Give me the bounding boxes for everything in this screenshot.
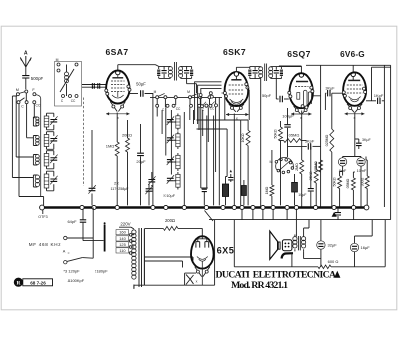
svg-text:6SQ7: 6SQ7 xyxy=(287,49,311,59)
wire OT drop xyxy=(242,209,309,237)
svg-text:6X5: 6X5 xyxy=(217,246,235,256)
svg-text:140: 140 xyxy=(119,236,126,241)
wire 6SQ7 plate to cap xyxy=(313,93,326,96)
resistor 0.5M AF xyxy=(280,140,284,142)
wire coil row 4 links xyxy=(47,171,54,191)
bus node x242 xyxy=(240,205,244,209)
svg-text:10mF: 10mF xyxy=(357,169,367,173)
antenna coil row 2 xyxy=(36,136,40,140)
capacitor 64pF xyxy=(80,220,86,222)
svg-text:☉10μF: ☉10μF xyxy=(163,194,176,198)
resistor 1M xyxy=(115,142,119,156)
svg-text:∆100KpF: ∆100KpF xyxy=(68,278,85,283)
wire heater taps xyxy=(144,257,193,268)
IF transformer T2 secondary coil xyxy=(269,67,273,71)
IF transformer T2 core xyxy=(265,64,267,82)
IF transformer T1 core xyxy=(175,62,177,81)
bus node x223 xyxy=(221,205,225,209)
phono contact 1 xyxy=(64,236,67,239)
capacitor 1KpF xyxy=(378,98,380,104)
wire right rails xyxy=(372,65,391,219)
transformer secondary winding xyxy=(143,229,145,286)
tube 6SQ7 top cap xyxy=(299,73,303,77)
bus node x353.6 xyxy=(352,205,356,209)
wire 6SA7 plate to IF1 xyxy=(118,65,159,67)
svg-text:50μF: 50μF xyxy=(136,82,146,87)
tube 6X5 envelope xyxy=(191,236,214,268)
svg-text:125: 125 xyxy=(119,242,126,247)
bus node x82 xyxy=(80,205,84,209)
svg-text:MF 468 KHz: MF 468 KHz xyxy=(29,242,62,247)
svg-text:300Ω: 300Ω xyxy=(360,177,364,186)
IF transformer T2 primary cap xyxy=(254,67,256,79)
fuse X curves xyxy=(186,275,194,285)
bus node x287.1 xyxy=(285,205,289,209)
tube 6SK7 grids xyxy=(229,85,244,94)
wire AF row2 xyxy=(288,145,307,147)
resistor box 2 xyxy=(241,186,246,196)
antenna symbol xyxy=(20,56,31,75)
svg-text:2X: 2X xyxy=(114,181,119,186)
svg-text:1MΩ: 1MΩ xyxy=(265,186,269,194)
IF transformer T1 primary cap xyxy=(163,66,165,78)
ladder contacts row 1 xyxy=(156,96,159,99)
wire to tuning bar xyxy=(83,240,104,242)
phono switch blade xyxy=(67,258,82,262)
IF transformer T1 secondary dots xyxy=(190,70,193,72)
tube 6V6 envelope xyxy=(343,72,366,106)
svg-text:CC: CC xyxy=(176,107,181,111)
wire coil row 3 links xyxy=(47,151,54,169)
volume potentiometer xyxy=(276,157,294,170)
svg-text:3KμF: 3KμF xyxy=(325,86,335,90)
svg-text:*3 120pF: *3 120pF xyxy=(63,268,80,273)
IF transformer T1 secondary cap xyxy=(186,66,188,78)
svg-text:64pF: 64pF xyxy=(67,219,77,224)
capacitor 10uF right xyxy=(310,146,312,188)
tuning gang bar xyxy=(104,225,106,252)
component dark box xyxy=(292,182,298,192)
tube 6X5 cathode xyxy=(197,257,208,262)
bus node x296.4 xyxy=(294,205,298,209)
capacitor 3KpF top xyxy=(328,90,330,96)
wire elec stems xyxy=(343,166,361,207)
oscillator coil row 2 xyxy=(167,138,174,140)
svg-text:10μF: 10μF xyxy=(298,193,307,197)
svg-text:M: M xyxy=(56,58,59,62)
bus node x117.2 xyxy=(115,205,119,209)
tube 6SQ7 alignment arrow xyxy=(291,113,312,115)
wire bus cap drop xyxy=(338,209,354,220)
wire cap to 6V6 xyxy=(332,93,343,95)
capacitor mid small xyxy=(202,189,207,191)
wire CT to fuse xyxy=(134,285,185,289)
capacitor 3KpF AF xyxy=(308,143,310,149)
wire transformer bottom xyxy=(133,285,135,289)
svg-text:6V6-G: 6V6-G xyxy=(340,50,365,59)
logo medallion xyxy=(14,278,23,287)
tube 6SK7 pins xyxy=(223,92,226,95)
wire 6SQ7 to 100uF xyxy=(287,108,289,157)
label OTF3 xyxy=(42,210,44,214)
IF transformer T2 secondary dots xyxy=(280,70,283,72)
speaker cone xyxy=(270,231,278,259)
ladder contacts row 2 xyxy=(156,104,159,107)
bus node x234.3 xyxy=(232,205,236,209)
svg-text:1MΩ: 1MΩ xyxy=(106,144,115,149)
capacitor 50pF xyxy=(276,98,278,100)
wire mid horizontals xyxy=(197,90,250,129)
bus node x252.9 xyxy=(251,205,255,209)
AVC dashed line xyxy=(83,98,85,187)
bus node x262.9 xyxy=(261,205,265,209)
bus node x206.4 xyxy=(204,205,208,209)
svg-text:M: M xyxy=(154,90,157,94)
svg-text:Mod. RR 4321.1: Mod. RR 4321.1 xyxy=(231,280,288,291)
wire switch to bus xyxy=(19,104,44,206)
transformer primary winding xyxy=(132,230,136,234)
IF transformer T1 secondary coil xyxy=(179,67,183,71)
wire B+ rail xyxy=(205,211,391,222)
capacitor 16uF xyxy=(350,243,358,251)
capacitor 32uF xyxy=(317,241,325,249)
wire 600 row xyxy=(234,266,318,268)
tube 6V6 pins xyxy=(342,91,345,94)
resistor 0.25M lower xyxy=(314,169,318,183)
capacitor 50uF xyxy=(141,90,143,96)
wire phono to bus xyxy=(67,208,93,259)
trimmer padder xyxy=(148,180,155,182)
wire into 6SA7 grid xyxy=(82,85,107,88)
IF transformer T2 primary dots xyxy=(248,70,251,72)
tap contacts xyxy=(129,234,132,237)
resistor 200 xyxy=(163,226,178,230)
wire AF rails xyxy=(321,65,332,207)
wire 220V line xyxy=(119,227,134,229)
wire 3KpF out xyxy=(313,145,321,147)
speaker field elbow xyxy=(282,253,293,258)
tube 6SK7 plate bar xyxy=(231,79,241,81)
svg-text:↕180pF: ↕180pF xyxy=(94,268,108,273)
wire det verticals xyxy=(233,114,235,206)
output transformer xyxy=(293,237,297,241)
bus node x152.9 xyxy=(151,205,155,209)
antenna coil row 4 xyxy=(35,175,39,179)
wire 6SQ7 cathode down xyxy=(301,111,303,161)
wire 6SA7 out xyxy=(129,93,138,95)
wire 6SA7 cathode drop xyxy=(116,113,118,143)
wire 6SK7 plate to IF2 xyxy=(236,66,249,69)
oscillator section box xyxy=(55,62,82,107)
capacitor 10mF xyxy=(357,158,365,166)
svg-text:10KΩ: 10KΩ xyxy=(241,133,245,142)
tube 6SA7 grids xyxy=(111,81,125,92)
wire 6V6 cathode xyxy=(343,112,361,158)
tube 6SK7 alignment arrow xyxy=(226,114,249,116)
svg-text:500pF: 500pF xyxy=(31,76,44,81)
capacitor 20uF xyxy=(140,124,142,153)
phono contact 2 xyxy=(64,261,67,264)
wire 6V6 plate rail xyxy=(306,64,391,66)
main supply bus xyxy=(42,206,367,209)
wire 16uF top rail xyxy=(355,220,373,236)
tube 6V6 top cap xyxy=(351,72,355,76)
wire IF2 to 6SQ7 grid cap xyxy=(281,66,301,68)
svg-text:32μF: 32μF xyxy=(328,243,338,248)
tube 6SQ7 envelope xyxy=(290,73,313,108)
svg-text:05MΩ: 05MΩ xyxy=(346,178,350,188)
IF transformer T2 secondary cap xyxy=(275,67,277,79)
capacitor mid arrow xyxy=(228,178,233,180)
capacitor 100uF xyxy=(284,125,290,127)
capacitor grid dots xyxy=(92,83,94,86)
svg-text:3KpF: 3KpF xyxy=(305,139,315,144)
tube 6SA7 top cap xyxy=(116,70,120,74)
resistor 300 right xyxy=(365,176,369,188)
svg-text:x: x xyxy=(196,280,198,284)
resistor 0.25M upper xyxy=(330,129,334,152)
svg-text:50KΩ: 50KΩ xyxy=(332,177,336,186)
wire HT top xyxy=(144,228,163,230)
svg-text:1KpF: 1KpF xyxy=(374,93,384,98)
bus node x315.6 xyxy=(314,205,318,209)
6SK7 switch contacts xyxy=(199,94,202,97)
svg-text:110: 110 xyxy=(119,248,126,253)
antenna coil row 1 xyxy=(36,117,39,120)
capacitor 3KpF cathode xyxy=(355,139,359,143)
wire ladder verticals xyxy=(153,97,219,205)
logo box xyxy=(23,279,53,286)
band switch row 2 xyxy=(17,101,20,104)
svg-text:05MΩ: 05MΩ xyxy=(289,133,300,138)
wire mid verticals xyxy=(201,116,241,206)
tube 6SA7 envelope xyxy=(106,71,129,104)
wire 1KpF to rail xyxy=(382,100,385,102)
wire 64pF drop xyxy=(82,209,84,241)
tube 6SQ7 elements xyxy=(296,81,308,83)
capacitor 8mF xyxy=(338,158,346,166)
resistor 0.5M right xyxy=(351,178,355,190)
wire 6V6 out xyxy=(366,100,376,102)
resistor 50K det xyxy=(280,121,282,127)
tube 6SQ7 pins xyxy=(288,91,291,94)
bus node x165.8 xyxy=(164,205,168,209)
resistor 50K cathode xyxy=(338,176,342,188)
IF transformer T1 primary coil xyxy=(168,67,172,71)
bus node x334 xyxy=(332,205,336,209)
svg-text:600 Ω: 600 Ω xyxy=(328,259,339,264)
svg-text:M: M xyxy=(16,88,19,92)
svg-text:OTF3: OTF3 xyxy=(38,215,47,219)
wire OT to 600 xyxy=(292,251,321,266)
resistor 2M xyxy=(319,160,323,172)
svg-text:025MΩ: 025MΩ xyxy=(325,134,329,146)
svg-text:M: M xyxy=(187,90,190,94)
capacitor bus xyxy=(335,213,341,215)
svg-text:CC: CC xyxy=(71,99,76,103)
svg-text:100μF: 100μF xyxy=(282,113,294,118)
wire coil row 1 links xyxy=(47,113,54,130)
oscillator coil row 4 xyxy=(167,178,174,180)
IF transformer T1 primary trimmer dots xyxy=(157,70,160,72)
wire 200 to 6X5 plate xyxy=(178,228,202,236)
capacitor 500pF xyxy=(22,76,29,78)
IF transformer T2 primary coil xyxy=(259,67,263,71)
tube 6X5 plates xyxy=(196,242,200,248)
bus node x94 xyxy=(92,205,96,209)
svg-text:6SA7: 6SA7 xyxy=(105,47,128,57)
bus end node left xyxy=(40,205,45,210)
svg-text:68 7-26: 68 7-26 xyxy=(30,280,46,285)
svg-text:50KΩ: 50KΩ xyxy=(273,129,277,138)
wire cap to ladder xyxy=(145,94,153,98)
svg-text:20μF: 20μF xyxy=(136,159,146,164)
wire 6X5 B+ out xyxy=(233,220,235,267)
trimmer AVC xyxy=(91,130,93,188)
svg-text:3KμF: 3KμF xyxy=(362,138,371,142)
tube 6SA7 pins xyxy=(105,89,108,92)
tube 6SK7 envelope xyxy=(225,72,249,106)
svg-text:20KΩ: 20KΩ xyxy=(122,133,132,138)
wire switch drops xyxy=(12,96,34,178)
svg-text:50pF: 50pF xyxy=(262,93,272,98)
oscillator coil xyxy=(65,72,69,76)
antenna coil row 3 xyxy=(36,155,40,159)
svg-text:2MΩ: 2MΩ xyxy=(295,163,299,171)
wire 50pF to 6SQ7 xyxy=(284,98,289,100)
marker triangle bus xyxy=(332,212,337,217)
svg-text:R: R xyxy=(16,280,20,286)
tube 6SK7 top cap xyxy=(234,72,238,76)
svg-text:160: 160 xyxy=(119,230,126,235)
tube 6SA7 alignment arrow xyxy=(106,113,130,115)
oscillator coil row 1 xyxy=(167,120,174,122)
speaker coil body xyxy=(282,240,292,251)
resistor 600 xyxy=(318,265,331,269)
tube 6V6 elements xyxy=(348,79,360,81)
svg-text:117÷258μF: 117÷258μF xyxy=(111,187,130,191)
wire IF1 secondary out xyxy=(187,78,197,93)
resistor 1M det xyxy=(271,150,273,185)
svg-text:6SK7: 6SK7 xyxy=(223,47,246,57)
wire 6SK7 switch loops xyxy=(195,82,222,124)
wire IF2 bottom drops xyxy=(261,79,277,208)
transformer core xyxy=(139,228,142,287)
bus node x273.1 xyxy=(271,205,275,209)
oscillator coil row 3 xyxy=(167,160,174,162)
resistor 150 box xyxy=(222,184,228,197)
bus end node right xyxy=(364,205,369,210)
svg-text:200Ω: 200Ω xyxy=(165,218,175,223)
svg-text:A: A xyxy=(63,248,66,253)
wire 600 to corner xyxy=(331,220,385,267)
resistor 20K xyxy=(127,120,129,138)
wire coil row 2 links xyxy=(47,132,54,150)
bus node x184.3 xyxy=(182,205,186,209)
svg-text:CC: CC xyxy=(36,104,41,108)
svg-text:220V: 220V xyxy=(120,222,130,227)
tube 6V6 alignment arrow xyxy=(345,113,365,115)
wire ladder top rail xyxy=(150,96,222,98)
svg-text:≈: ≈ xyxy=(68,251,70,255)
marker triangle 600 xyxy=(334,271,340,278)
svg-text:A: A xyxy=(24,51,28,57)
wire 6X5 base box xyxy=(185,220,215,286)
resistor 10K xyxy=(247,120,249,130)
svg-text:16μF: 16μF xyxy=(361,245,371,250)
